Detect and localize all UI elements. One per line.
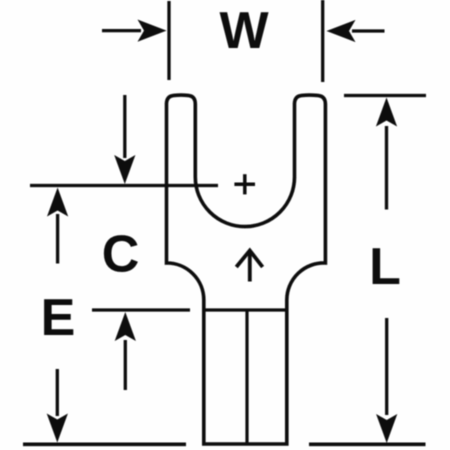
C up arrow bbox=[115, 312, 136, 390]
L down arrow bbox=[376, 318, 397, 443]
bottom baseline right segment bbox=[309, 442, 426, 446]
barrel seam line bbox=[245, 310, 248, 444]
E extension line (barrel top, left) bbox=[92, 308, 190, 311]
L top extension line bbox=[344, 94, 426, 97]
svg-text:W: W bbox=[219, 2, 269, 60]
barrel top line bbox=[204, 308, 287, 311]
terminal fork outline bbox=[167, 95, 326, 444]
W extension line right bbox=[321, 0, 324, 82]
insertion direction arrow (up chevron) bbox=[236, 251, 262, 282]
E up arrow bbox=[47, 188, 68, 264]
stud center mark + bbox=[234, 174, 255, 194]
bottom baseline left segment bbox=[23, 442, 186, 446]
W extension line left bbox=[167, 1, 170, 80]
svg-text:L: L bbox=[369, 238, 401, 296]
W dimension arrow right bbox=[327, 20, 385, 42]
svg-text:C: C bbox=[102, 226, 140, 284]
C down arrow bbox=[114, 95, 135, 184]
W dimension arrow left bbox=[102, 20, 167, 42]
E down arrow bbox=[47, 369, 68, 443]
svg-text:E: E bbox=[41, 289, 76, 347]
L up arrow bbox=[376, 98, 397, 210]
C dimension line (stud-center extension) bbox=[30, 184, 218, 187]
